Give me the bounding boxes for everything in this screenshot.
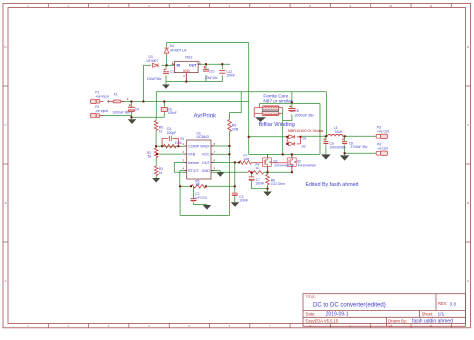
svg-text:DC to DC converter(edited): DC to DC converter(edited) [313,303,386,309]
svg-text:VREF: VREF [200,144,211,148]
svg-text:10uF16v: 10uF16v [205,76,218,80]
svg-text:B: B [467,201,469,205]
svg-text:+ve Out: +ve Out [377,129,389,133]
svg-text:N87 or similar: N87 or similar [263,98,292,103]
svg-text:2019-09-1: 2019-09-1 [326,312,349,318]
svg-text:OUT: OUT [189,63,198,67]
svg-text:100uF36v: 100uF36v [147,77,162,81]
svg-text:UF4007: UF4007 [147,59,159,63]
svg-text:-ve Input: -ve Input [95,109,108,113]
svg-text:EasyEDA V5.5.15: EasyEDA V5.5.15 [306,318,339,323]
svg-text:100k: 100k [175,141,182,145]
svg-text:Isense: Isense [188,161,199,165]
svg-text:AvrPrink: AvrPrink [194,113,218,119]
svg-text:7812: 7812 [185,55,193,59]
svg-text:220pF: 220pF [167,131,176,135]
svg-text:D: D [4,45,6,49]
svg-text:D4: D4 [170,44,174,48]
svg-text:C4: C4 [135,107,139,111]
svg-text:VCC: VCC [202,153,210,157]
svg-text:Sheet:: Sheet: [422,311,434,316]
svg-text:IRFZ44NPBF: IRFZ44NPBF [298,163,317,167]
svg-text:fasih uddin ahmed: fasih uddin ahmed [412,319,453,325]
svg-text:1k: 1k [255,166,259,170]
svg-text:100nF: 100nF [239,198,248,202]
svg-text:Drawn By:: Drawn By: [388,318,407,323]
svg-text:B: B [5,201,7,205]
svg-text:MBR10100 Or Similar: MBR10100 Or Similar [288,128,325,133]
svg-text:2700uF 35v: 2700uF 35v [351,145,368,149]
svg-text:GND: GND [183,69,191,73]
svg-text:-ve Out: -ve Out [377,146,388,150]
svg-text:C: C [4,123,6,127]
svg-text:IRFZ44N/FQP: IRFZ44N/FQP [275,163,295,167]
svg-text:GND: GND [202,169,211,173]
svg-text:Date:: Date: [306,311,316,316]
svg-text:VFB: VFB [188,153,196,157]
svg-text:D: D [467,45,469,49]
svg-text:F1: F1 [114,93,118,97]
svg-text:3.0: 3.0 [450,302,457,308]
svg-text:A: A [5,279,7,283]
svg-text:+ve Input: +ve Input [95,95,109,99]
svg-text:OUT: OUT [202,161,211,165]
svg-text:C10: C10 [209,70,215,74]
svg-text:100nF: 100nF [226,74,235,78]
svg-text:20R: 20R [232,127,239,131]
svg-text:10R: 10R [244,157,250,161]
svg-text:1000uF 36v: 1000uF 36v [113,111,131,115]
svg-text:D2: D2 [302,144,306,148]
svg-text:2000uF 36v: 2000uF 36v [295,113,315,117]
svg-text:A: A [467,279,469,283]
svg-text:1k: 1k [159,129,163,133]
svg-text:UC3843: UC3843 [197,135,210,139]
svg-text:Edited By fasih ahmed: Edited By fasih ahmed [306,182,359,188]
svg-text:C: C [467,123,469,127]
svg-text:REV:: REV: [438,301,447,306]
svg-text:TITLE:: TITLE: [306,295,316,299]
svg-text:D1: D1 [303,137,307,141]
svg-text:0.22 Ohm: 0.22 Ohm [271,182,285,186]
svg-text:100nF: 100nF [168,111,177,115]
svg-text:1k: 1k [159,171,163,175]
svg-text:UF4007 U2: UF4007 U2 [170,49,187,53]
svg-text:100nF: 100nF [255,182,264,186]
svg-text:10uH: 10uH [335,130,343,134]
svg-text:C1: C1 [170,70,174,74]
svg-text:IN: IN [177,63,181,67]
svg-text:2.2nF(222): 2.2nF(222) [193,195,208,199]
svg-text:1000uF36v: 1000uF36v [330,145,347,149]
svg-text:COMP: COMP [188,144,200,148]
svg-text:5k: 5k [148,155,152,159]
svg-text:1/1: 1/1 [438,312,445,318]
svg-text:RT/CT: RT/CT [188,169,200,173]
